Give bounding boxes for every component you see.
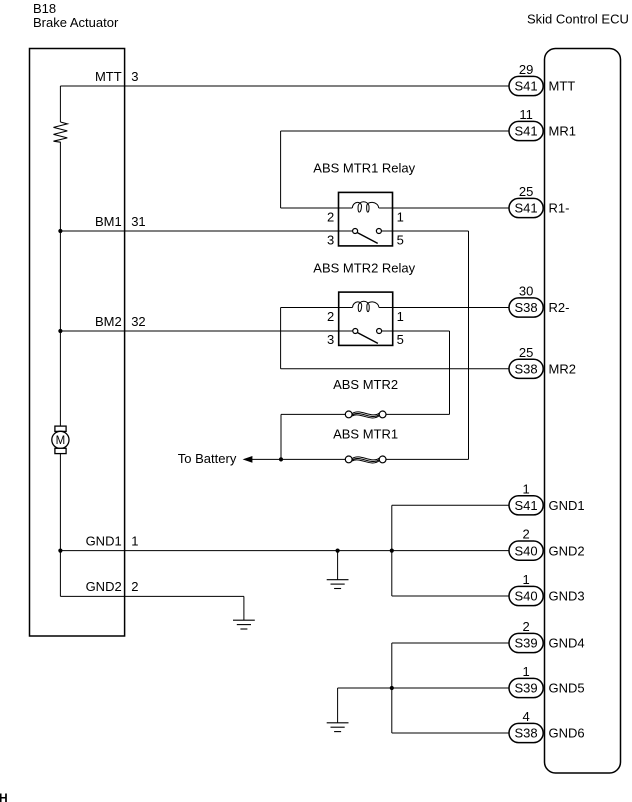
svg-text:GND6: GND6 [549, 726, 585, 741]
fuse ABS MTR2 wire segments [386, 413, 450, 415]
wire actuator internal vertical (MTT to resistor) [59, 86, 61, 122]
svg-text:31: 31 [131, 214, 145, 229]
svg-text:R1-: R1- [549, 201, 570, 216]
resistor (brake actuator internal) [54, 122, 68, 142]
wire relay1 pin 5 to battery line [393, 230, 469, 232]
ECU pin GND3 connector S40 [509, 586, 543, 605]
svg-text:25: 25 [519, 184, 533, 199]
svg-text:S41: S41 [515, 201, 538, 216]
ground symbol (GND1 wire) [337, 551, 339, 580]
ECU pin GND4 connector S39 [509, 633, 543, 652]
svg-text:MTT: MTT [549, 79, 576, 94]
brake actuator B18 box [30, 49, 125, 637]
wire branch to ECU GND4/GND6 [391, 643, 393, 733]
wire branch to ECU GND1/GND3 [391, 505, 393, 596]
svg-text:11: 11 [519, 107, 533, 122]
svg-text:GND1: GND1 [86, 533, 122, 548]
svg-text:GND5: GND5 [549, 681, 585, 696]
wire resistor to motor [59, 142, 61, 426]
fuse ABS MTR1 [345, 456, 352, 463]
svg-text:S38: S38 [515, 362, 538, 377]
junction BM2 on actuator vertical [58, 329, 62, 333]
svg-text:25: 25 [519, 345, 533, 360]
svg-text:Brake Actuator: Brake Actuator [33, 15, 119, 30]
arrow to battery [243, 456, 253, 463]
svg-text:1: 1 [397, 309, 404, 324]
svg-text:S39: S39 [515, 636, 538, 651]
relay ABS MTR1 [339, 192, 393, 246]
svg-text:ABS MTR2 Relay: ABS MTR2 Relay [313, 260, 415, 275]
svg-text:GND2: GND2 [549, 543, 585, 558]
ground symbol (GND5 wire) [337, 688, 339, 723]
junction GND branch on GND1 wire [390, 549, 394, 553]
junction battery line / fuse MTR2 branch [279, 457, 283, 461]
ECU pin MTT connector S41 [509, 76, 543, 95]
junction GND branch on GND5 wire [390, 686, 394, 690]
fuse ABS MTR1 wire segments (battery feed) [252, 458, 345, 460]
junction ground tap on GND1 wire [336, 549, 340, 553]
svg-text:M: M [56, 435, 66, 447]
svg-text:2: 2 [327, 309, 334, 324]
wire motor to GND2 corner [59, 454, 61, 597]
svg-text:1: 1 [522, 481, 529, 496]
svg-text:Skid Control ECU: Skid Control ECU [527, 12, 629, 27]
wire MR2 (relay2 coil pin 2 to ECU pin 25/MR2) [281, 307, 339, 309]
junction GND1 on actuator vertical [58, 549, 62, 553]
svg-text:30: 30 [519, 284, 533, 299]
svg-text:S41: S41 [515, 79, 538, 94]
svg-text:S40: S40 [515, 543, 538, 558]
fuse ABS MTR2 [345, 411, 352, 418]
svg-text:ABS MTR2: ABS MTR2 [333, 377, 398, 392]
ECU pin GND6 connector S38 [509, 723, 543, 742]
svg-text:3: 3 [327, 332, 334, 347]
svg-text:3: 3 [131, 69, 138, 84]
svg-text:S38: S38 [515, 726, 538, 741]
wire GND2 (actuator pin 2 to ground) [60, 595, 244, 597]
svg-text:GND1: GND1 [549, 498, 585, 513]
svg-text:R2-: R2- [549, 300, 570, 315]
svg-text:4: 4 [522, 709, 529, 724]
wire BM2 (actuator pin 32 to relay contact pin 3) [60, 330, 338, 332]
svg-text:1: 1 [522, 664, 529, 679]
svg-text:GND3: GND3 [549, 589, 585, 604]
svg-text:5: 5 [397, 332, 404, 347]
ECU pin GND2 connector S40 [509, 541, 543, 560]
svg-text:2: 2 [131, 579, 138, 594]
relay ABS MTR2 [339, 292, 393, 345]
svg-text:MR1: MR1 [549, 124, 576, 139]
ECU pin GND1 connector S41 [509, 496, 543, 515]
ECU pin GND5 connector S39 [509, 678, 543, 697]
wire GND1 (actuator pin 1 to ECU GND2 pin 2) [60, 550, 509, 552]
wire GND5 (ground to ECU GND5) [338, 687, 509, 689]
svg-text:5: 5 [397, 232, 404, 247]
svg-text:29: 29 [519, 62, 533, 77]
motor M (brake actuator pump motor) [55, 426, 66, 431]
svg-text:2: 2 [327, 209, 334, 224]
svg-text:ABS MTR1: ABS MTR1 [333, 427, 398, 442]
ground symbol (actuator GND2) [243, 596, 245, 620]
svg-text:2: 2 [522, 527, 529, 542]
wire R2- (relay2 coil pin 1 to ECU pin 30) [393, 307, 509, 309]
svg-text:S38: S38 [515, 300, 538, 315]
svg-text:32: 32 [131, 314, 145, 329]
svg-text:S40: S40 [515, 589, 538, 604]
svg-text:S41: S41 [515, 498, 538, 513]
svg-text:ABS MTR1 Relay: ABS MTR1 Relay [313, 160, 415, 175]
svg-text:S41: S41 [515, 124, 538, 139]
wire MTT (actuator pin 3 to ECU pin 29) [60, 85, 509, 87]
svg-text:MTT: MTT [95, 69, 122, 84]
skid control ECU box [545, 49, 621, 774]
wire BM1 (actuator pin 31 to relay contact pin 3) [60, 230, 338, 232]
svg-text:H: H [0, 791, 8, 802]
svg-text:S39: S39 [515, 681, 538, 696]
wire R1- (relay1 coil pin 1 to ECU pin 25) [393, 207, 510, 209]
wire MR1 (ECU pin 11 to relay1 coil pin 2) [281, 130, 509, 132]
svg-text:1: 1 [397, 209, 404, 224]
junction BM1 on actuator vertical [58, 229, 62, 233]
svg-text:2: 2 [522, 619, 529, 634]
svg-text:To Battery: To Battery [178, 451, 237, 466]
svg-text:BM2: BM2 [95, 314, 122, 329]
svg-text:1: 1 [131, 533, 138, 548]
wire relay2 pin 5 to fuse ABS MTR2 [393, 330, 450, 332]
ECU pin MR1 connector S41 [509, 121, 543, 140]
svg-text:3: 3 [327, 232, 334, 247]
svg-text:MR2: MR2 [549, 362, 576, 377]
ECU pin R2- connector S38 [509, 298, 543, 317]
svg-text:1: 1 [522, 572, 529, 587]
ECU pin R1- connector S41 [509, 198, 543, 217]
svg-text:GND4: GND4 [549, 636, 585, 651]
svg-text:GND2: GND2 [86, 579, 122, 594]
svg-text:BM1: BM1 [95, 214, 122, 229]
ECU pin MR2 connector S38 [509, 359, 543, 378]
